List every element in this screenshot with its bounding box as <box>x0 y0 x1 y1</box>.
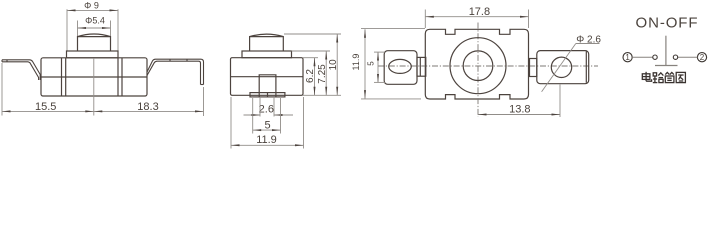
svg-text:1: 1 <box>625 53 630 62</box>
fixed contact 1 <box>653 55 657 59</box>
terminal circle 2 <box>697 53 706 62</box>
left terminal tab <box>417 57 426 76</box>
dim lines 15.5 / 18.3 <box>2 58 204 116</box>
glyph dian <box>642 72 651 81</box>
body mid line <box>41 76 147 78</box>
glyph tu <box>676 72 685 82</box>
body side view <box>41 58 147 96</box>
dim 2.6 <box>259 103 274 115</box>
svg-text:ON-OFF: ON-OFF <box>636 14 699 31</box>
arrows 15.5 and 18.3 <box>2 110 204 112</box>
dim 17.8 lines <box>425 10 528 29</box>
left terminal slot <box>389 59 412 73</box>
svg-text:2.6: 2.6 <box>259 103 274 115</box>
right terminal hole <box>551 57 571 77</box>
terminal circle 1 <box>623 53 632 62</box>
dim 13.8 <box>509 103 530 115</box>
fixed contact 2 <box>673 55 677 59</box>
dim label 10 <box>328 59 339 71</box>
svg-text:13.8: 13.8 <box>509 103 530 115</box>
dim Phi2.6 label and leader <box>576 34 601 45</box>
right terminal top view <box>537 51 589 84</box>
contact base plate <box>250 93 285 97</box>
left terminal top view <box>384 51 417 85</box>
plunger <box>665 36 667 66</box>
caption dian lu jian tu <box>642 72 685 83</box>
flange front view <box>242 51 292 58</box>
wire 2 <box>678 56 698 58</box>
right terminal <box>147 59 204 84</box>
svg-text:2: 2 <box>700 53 705 62</box>
dim line Phi5.4 <box>78 21 111 37</box>
dim 15.5 label <box>35 101 56 113</box>
glyph lu <box>653 73 664 83</box>
right terminal tab <box>530 59 537 77</box>
flange side view <box>67 51 119 58</box>
body mid line front <box>231 76 304 78</box>
outer circle top view <box>450 38 506 94</box>
contact stem <box>259 75 276 93</box>
label ON-OFF <box>636 14 699 31</box>
arrows 6.2 / 7.25 / 10 <box>314 34 339 95</box>
dim label Phi5.4 <box>85 16 105 26</box>
button cap front view <box>250 34 284 51</box>
svg-text:11.9: 11.9 <box>256 134 277 146</box>
dim 11.9 bottom <box>256 134 277 146</box>
svg-text:6.2: 6.2 <box>305 69 316 83</box>
body front view <box>231 58 304 96</box>
arrows Phi5.4 <box>78 27 111 29</box>
dim label Phi9 <box>84 1 99 11</box>
svg-text:Φ5.4: Φ5.4 <box>85 16 105 26</box>
glyph jian <box>665 72 674 82</box>
dim 5 left of top view <box>367 61 376 66</box>
dim 18.3 label <box>137 101 158 113</box>
center crosshair dash-dot <box>378 23 598 118</box>
svg-text:11.9: 11.9 <box>351 54 361 71</box>
movable contact bar <box>655 65 678 67</box>
svg-text:5: 5 <box>367 61 376 66</box>
dim 5 <box>264 120 270 132</box>
wire 1 <box>632 56 653 58</box>
body seams <box>62 58 123 96</box>
svg-text:17.8: 17.8 <box>469 6 490 18</box>
svg-text:10: 10 <box>328 59 339 71</box>
dim label 6.2 <box>305 69 316 83</box>
dim 11.9 left of top view <box>351 54 361 71</box>
svg-text:7.25: 7.25 <box>317 64 328 84</box>
dim label 7.25 <box>317 64 328 84</box>
arrows Phi9 <box>67 9 118 11</box>
svg-text:Φ 9: Φ 9 <box>84 1 99 11</box>
leader lines right of front view <box>284 34 341 95</box>
top view body <box>425 29 528 99</box>
dim 17.8 label <box>469 6 490 18</box>
inner circle top view <box>463 51 493 81</box>
left terminal <box>2 60 40 80</box>
button cap side view <box>78 34 111 51</box>
dim line Phi9 <box>67 9 118 50</box>
